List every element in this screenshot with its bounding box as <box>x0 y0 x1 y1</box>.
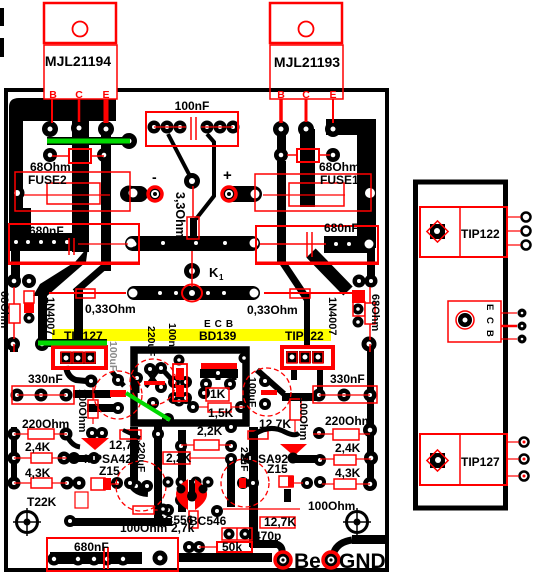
pad MPSA42 <box>70 455 94 462</box>
svg-text:100uF: 100uF <box>107 341 119 372</box>
wire loop left leg extension <box>130 427 138 482</box>
trimmer pad left <box>17 512 38 533</box>
wire red link BC to right <box>223 508 300 510</box>
resistor 12,7K left box <box>120 430 141 439</box>
svg-text:1N4007: 1N4007 <box>326 297 338 336</box>
pads bottom 680nF <box>48 553 61 566</box>
pad 50k b <box>193 541 205 553</box>
resistor 220Ohm right <box>333 429 359 440</box>
pad E1 <box>98 121 114 137</box>
svg-text:GND: GND <box>339 550 386 573</box>
red bar top of loop <box>201 363 237 369</box>
resistor 12,7K right box <box>260 517 295 528</box>
svg-text:0,33Ohm: 0,33Ohm <box>85 302 136 316</box>
resistor 68Ohm right <box>297 149 319 162</box>
svg-text:MJL21194: MJL21194 <box>45 53 111 69</box>
wire loop cluster d <box>216 371 221 380</box>
wire B93 bar <box>277 134 286 158</box>
capacitor 470p box <box>222 528 252 540</box>
transistor Q2 MJL21193 tab <box>270 3 342 43</box>
wire bottom 680nF bar <box>50 552 142 564</box>
capacitor C2 220uF <box>130 359 176 405</box>
pad minus stadium <box>120 186 148 202</box>
pads cap C5 <box>237 477 249 489</box>
svg-text:1,5K: 1,5K <box>208 406 234 420</box>
wire jumper green diagonal <box>126 393 170 420</box>
resistor 2,2K a <box>194 440 219 450</box>
wire S-curve left <box>67 436 80 447</box>
svg-text:E: E <box>484 304 495 310</box>
yellow band <box>52 329 331 341</box>
wire K1 red vertical <box>191 251 193 287</box>
wire loop cluster a <box>161 368 174 382</box>
pin E Q2 <box>332 99 334 123</box>
capacitor 680nF left box <box>9 224 139 264</box>
wire 3,3Ohm bar <box>190 218 197 239</box>
marker fan BC546 <box>195 479 207 510</box>
pads cap C3 <box>259 375 271 387</box>
fuse FUSE1 outline <box>255 174 371 211</box>
pad 68ohm left <box>43 148 57 162</box>
pin C Q2 <box>305 99 308 122</box>
resistor 3,3Ohm box <box>187 217 199 239</box>
wire TIP122 stub right <box>317 367 323 393</box>
pads TIP122 footprint <box>286 351 298 363</box>
pad bottom left bar <box>64 515 76 527</box>
wire right column upper <box>367 251 375 283</box>
svg-text:680nF: 680nF <box>29 224 64 238</box>
svg-text:100nF: 100nF <box>166 323 178 354</box>
svg-text:-: - <box>152 169 157 185</box>
svg-text:220Ohm: 220Ohm <box>22 417 69 431</box>
pad fuse2 right <box>122 186 137 201</box>
pads bottom center <box>162 504 174 516</box>
wire left resistor column <box>11 427 17 487</box>
svg-text:T22K: T22K <box>27 495 57 509</box>
svg-text:Be: Be <box>294 550 321 573</box>
wire 680nF bar right <box>324 236 375 253</box>
resistor 1N4007 left link <box>13 344 15 352</box>
fuse FUSE2 outline <box>15 172 130 211</box>
wire TIP122 stub left <box>291 367 297 380</box>
svg-text:68Ohm: 68Ohm <box>319 160 360 174</box>
pad under TIP127 fp <box>85 375 98 388</box>
svg-text:100nF: 100nF <box>175 99 210 113</box>
resistor 4,3K left <box>31 478 52 488</box>
capacitor 330nF right <box>313 386 377 403</box>
wire red bus link <box>260 243 326 245</box>
pad K1 <box>184 263 200 279</box>
holes 680nF right bar <box>365 240 374 249</box>
svg-text:68Ohm: 68Ohm <box>30 160 71 174</box>
pads right rows <box>313 427 325 439</box>
pad fuse2 left <box>10 186 25 201</box>
wire top bar left <box>9 98 116 121</box>
pads cap C4 <box>130 480 142 492</box>
wire jumper green top <box>47 139 130 144</box>
wire curve to cap C4 <box>130 478 148 493</box>
holes lower bus <box>129 289 138 298</box>
wire left vertical bus <box>9 107 23 215</box>
wire TIP127 pad curve <box>66 366 86 381</box>
wire vert center <box>178 430 186 512</box>
terminal minus ring <box>148 187 162 201</box>
resistor 1K <box>206 388 229 401</box>
wire bottom bar 2 <box>250 540 278 548</box>
pad GND <box>326 555 336 565</box>
svg-text:4,3K: 4,3K <box>25 466 51 480</box>
wire B93 diagonal <box>281 260 307 299</box>
transistor TIP127 footprint <box>53 347 106 368</box>
wire vert center-right <box>249 427 258 547</box>
wire to C1 lower <box>87 404 121 412</box>
svg-text:220Ohm: 220Ohm <box>325 414 372 428</box>
pad Be <box>278 555 288 565</box>
pads right column <box>363 423 377 437</box>
diode 1N4007 right <box>352 290 365 303</box>
resistor 4,3K right <box>334 479 356 489</box>
svg-text:100Ohm: 100Ohm <box>297 397 309 441</box>
pads left pair <box>7 274 21 288</box>
wire right column lower <box>367 348 374 487</box>
satellite board outline <box>416 182 506 508</box>
wire upper bus bar <box>125 236 260 251</box>
svg-text:3,3Ohm: 3,3Ohm <box>173 192 187 238</box>
svg-text:470p: 470p <box>254 529 281 543</box>
wire diagonal A <box>33 247 88 296</box>
main board outline <box>6 90 387 570</box>
wire jumper green mid <box>38 341 107 346</box>
svg-text:B: B <box>277 89 285 101</box>
svg-text:1: 1 <box>219 273 224 282</box>
pads 330nF right <box>313 389 326 402</box>
wire diag near C1 <box>112 372 124 386</box>
resistor 68Ohm left vert <box>13 287 15 339</box>
satellite TIP122 box <box>420 207 507 257</box>
pad GND ring <box>323 552 339 568</box>
hole fuse1 right <box>365 188 375 198</box>
wire vert under 2,2K <box>227 459 235 507</box>
svg-text:2,4K: 2,4K <box>25 440 51 454</box>
pads Z15 right <box>301 477 313 489</box>
pad MPSA92 <box>244 452 256 464</box>
pad C1 <box>71 120 87 136</box>
pads 1,5K <box>187 401 199 413</box>
wire C3 to 330nF <box>282 393 320 401</box>
capacitor 100nF box <box>146 112 238 146</box>
svg-text:100uF: 100uF <box>246 377 258 408</box>
capacitor C1 100uF <box>94 371 142 419</box>
wire loop cluster c <box>204 371 209 378</box>
svg-text:2,2K: 2,2K <box>166 451 192 465</box>
wire under red bar <box>200 369 238 378</box>
wire B-line to TIP127 <box>74 288 83 348</box>
pads cap C2 <box>144 363 156 375</box>
marker fan BC556 <box>176 479 188 510</box>
wire center loop <box>134 350 246 423</box>
pads 470p <box>224 529 235 540</box>
svg-text:12,7K: 12,7K <box>259 417 291 431</box>
pads 1N4007 right <box>353 304 364 315</box>
svg-text:2,4K: 2,4K <box>335 441 361 455</box>
pad plus stadium <box>222 186 262 202</box>
resistor box c4 bottom <box>133 506 154 514</box>
pad 68ohm vert bottom <box>362 337 377 352</box>
pad 1K <box>198 387 210 399</box>
svg-text:C: C <box>75 89 83 101</box>
satellite board pads <box>430 224 445 239</box>
wire 330nF to C1 upper <box>73 390 111 398</box>
pads right pair <box>353 275 366 288</box>
wire to 1N4007 <box>38 288 47 344</box>
pad 680nF left wire <box>127 237 141 251</box>
wire S-curve right <box>255 428 299 434</box>
wire left joint <box>9 208 31 251</box>
wire 680nF bar left <box>9 233 82 251</box>
wire jumper underlay 1 <box>47 137 130 145</box>
edge mark left <box>0 38 4 57</box>
svg-text:E: E <box>329 89 336 101</box>
capacitor 680nF right box <box>256 226 378 264</box>
capacitor C5 22uF <box>221 459 269 507</box>
wire 100nF left down <box>168 134 192 180</box>
svg-text:4,3K: 4,3K <box>335 466 361 480</box>
svg-text:12,7K: 12,7K <box>264 515 296 529</box>
wire C-pin bar <box>72 99 89 252</box>
svg-text:C: C <box>484 317 495 324</box>
wire vert center-left <box>154 426 162 520</box>
satellite side pads top <box>522 213 531 222</box>
svg-text:TIP122: TIP122 <box>285 329 324 343</box>
pin B Q1 <box>51 99 53 123</box>
pads mid-left pair <box>6 337 20 351</box>
pads TIP127 footprint <box>60 352 72 364</box>
marker wedge MPSA92 <box>280 444 307 456</box>
svg-text:68Ohm: 68Ohm <box>0 291 10 329</box>
pad 68ohm right <box>97 148 111 162</box>
edge mark top-left <box>0 8 4 26</box>
wire right vertical bus <box>357 119 376 248</box>
svg-text:TIP122: TIP122 <box>461 227 500 241</box>
svg-text:50k: 50k <box>222 540 242 554</box>
transistor Q1 MJL21194 tab <box>44 3 116 43</box>
svg-text:680nF: 680nF <box>324 221 359 235</box>
svg-text:0,33Ohm: 0,33Ohm <box>247 303 298 317</box>
pad 50k a <box>183 541 195 553</box>
pad Z15 left <box>111 477 123 489</box>
pads fan row <box>163 477 174 488</box>
transistor TIP122 footprint <box>282 347 333 368</box>
red outline bottom-left cluster <box>75 492 88 508</box>
wire bottom-left horizontal <box>68 518 172 526</box>
capacitor 680nF bottom box <box>47 538 178 571</box>
capacitor box between BC556/BC546 <box>189 511 198 528</box>
pads resistor rows left <box>8 428 21 441</box>
svg-text:+: + <box>223 167 232 184</box>
pad green diag end <box>162 413 174 425</box>
transistor Q2 body <box>270 45 343 99</box>
wire bottom long bar <box>178 553 272 562</box>
wire 100nF right down <box>196 134 214 219</box>
resistor 68Ohm right vert <box>369 287 371 340</box>
capacitor 100nF vert <box>173 364 187 401</box>
wire lower bus bar <box>127 286 260 300</box>
resistor 1,5K <box>208 403 231 412</box>
wire top-right bar <box>326 119 376 135</box>
svg-text:2,2K: 2,2K <box>197 424 223 438</box>
pads cap C1 <box>112 374 124 386</box>
svg-text:100Ohm: 100Ohm <box>308 499 355 513</box>
svg-text:K: K <box>209 265 219 280</box>
wire loop cluster e <box>232 371 237 380</box>
svg-text:680nF: 680nF <box>74 540 109 554</box>
wire left pads column <box>10 340 18 352</box>
svg-text:TIP127: TIP127 <box>64 329 103 343</box>
transistor Q1 body <box>44 45 117 99</box>
svg-text:B: B <box>49 89 57 101</box>
resistor 50k box <box>217 542 252 552</box>
diode Z15 right <box>279 476 293 487</box>
wire MPSA92 bar <box>294 455 318 463</box>
wire diag through C3 <box>257 370 284 394</box>
svg-text:TIP127: TIP127 <box>461 455 500 469</box>
pin E Q1 <box>104 99 109 123</box>
capacitor C4 220uF <box>116 461 166 511</box>
wire C93 bar <box>300 129 315 207</box>
pads MJL21193 <box>273 121 289 137</box>
svg-text:Z15: Z15 <box>267 462 288 476</box>
pin C Q1 <box>78 99 81 122</box>
svg-text:C: C <box>302 89 310 101</box>
pad 1N4007 left <box>24 313 35 324</box>
satellite side pads middle <box>518 309 527 318</box>
svg-text:BC546: BC546 <box>189 514 227 528</box>
svg-text:68Ohm: 68Ohm <box>369 294 381 332</box>
wire diagonal B <box>75 265 106 292</box>
svg-text:100Ohm: 100Ohm <box>120 521 167 535</box>
svg-text:330nF: 330nF <box>28 372 63 386</box>
wire GND link <box>334 540 352 552</box>
resistor 2,2K b <box>163 452 190 464</box>
wire diagonal right <box>311 253 348 291</box>
pads 330nF left <box>11 389 24 402</box>
pin B Q2 <box>279 99 283 123</box>
wire X a <box>146 369 159 387</box>
pad jumper end <box>121 133 137 149</box>
svg-text:MJL21193: MJL21193 <box>274 54 340 70</box>
satellite side pads bottom <box>520 438 529 447</box>
pad junction 100nF <box>184 173 200 189</box>
wire E-pin bar <box>101 133 111 271</box>
wire between fans <box>189 480 196 497</box>
pad MPSA92 below <box>288 453 299 464</box>
red link right col <box>369 344 371 352</box>
wire diag through 12,7K left <box>123 430 140 438</box>
svg-text:12,7K: 12,7K <box>109 438 141 452</box>
svg-text:E: E <box>102 89 109 101</box>
svg-text:1K: 1K <box>210 387 226 401</box>
resistor 68Ohm left <box>69 149 91 163</box>
resistor 12,7K right box <box>248 431 268 439</box>
pad Be ring <box>275 552 291 568</box>
resistor 0,33Ohm left <box>49 292 126 294</box>
wire X b <box>146 369 159 387</box>
svg-text:2,7k: 2,7k <box>171 521 195 535</box>
svg-text:BD139: BD139 <box>199 329 237 343</box>
svg-text:FUSE1: FUSE1 <box>320 173 359 187</box>
wire left bus lower <box>11 251 20 278</box>
svg-text:330nF: 330nF <box>330 372 365 386</box>
diode 1N4007 left <box>24 291 34 303</box>
resistor 100Ohm right vert <box>290 399 301 420</box>
resistor 2,4K left <box>31 453 52 463</box>
pad between fans <box>187 491 198 502</box>
resistor 0,33Ohm right <box>264 292 352 294</box>
holes 680nF bar <box>14 240 18 244</box>
capacitor 330nF left <box>12 386 74 404</box>
wire to TIP122 <box>304 294 310 348</box>
pad B1 <box>42 121 58 137</box>
wire loop cluster b <box>135 378 140 393</box>
wire jumper underlay 2 <box>38 339 107 347</box>
pads 2,2K <box>175 440 187 452</box>
svg-text:220uF: 220uF <box>145 326 157 357</box>
svg-text:Z15: Z15 <box>99 464 120 478</box>
pads 100nF <box>148 121 161 134</box>
satellite ECB box <box>448 301 501 342</box>
marker wedge MPSA42 <box>81 438 109 450</box>
capacitor C3 100uF <box>243 368 291 416</box>
resistor 2,4K right <box>334 455 356 465</box>
svg-text:1N4007: 1N4007 <box>44 297 56 336</box>
wire B93 bar lower <box>277 161 286 262</box>
pads loop area <box>131 372 143 384</box>
terminal plus ring <box>222 187 236 201</box>
resistor 220Ohm left <box>28 429 54 439</box>
wire below Z15 right <box>284 489 291 502</box>
svg-text:100Ohm: 100Ohm <box>76 389 88 433</box>
pad K1 ring <box>182 285 202 302</box>
resistor 100Ohm left vert <box>88 400 98 418</box>
svg-text:B: B <box>484 330 495 337</box>
holes upper bus <box>127 239 136 248</box>
svg-text:FUSE2: FUSE2 <box>28 173 67 187</box>
diode Z15 left <box>91 478 105 490</box>
trimmer pad right <box>347 512 368 533</box>
pad fans center <box>187 491 197 501</box>
satellite TIP127 box <box>420 434 507 485</box>
